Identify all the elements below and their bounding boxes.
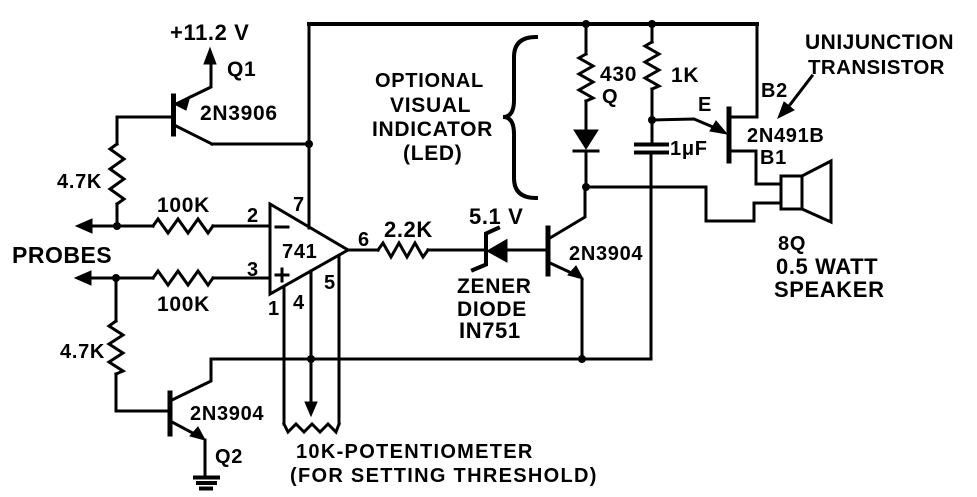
- svg-text:430: 430: [600, 63, 637, 86]
- svg-text:100K: 100K: [157, 293, 210, 316]
- svg-text:2N3904: 2N3904: [190, 403, 264, 425]
- svg-text:SPEAKER: SPEAKER: [774, 277, 885, 302]
- svg-text:PROBES: PROBES: [12, 242, 112, 268]
- svg-text:8Q: 8Q: [778, 233, 806, 255]
- svg-text:ZENER: ZENER: [457, 275, 532, 298]
- svg-text:100K: 100K: [157, 194, 210, 217]
- svg-text:2N3906: 2N3906: [200, 102, 278, 125]
- svg-text:3: 3: [247, 259, 259, 281]
- svg-text:2: 2: [247, 205, 259, 227]
- svg-text:UNIJUNCTION: UNIJUNCTION: [805, 31, 954, 54]
- svg-text:1: 1: [268, 298, 280, 320]
- svg-text:2N491B: 2N491B: [747, 125, 825, 147]
- svg-text:5.1 V: 5.1 V: [469, 204, 523, 229]
- svg-text:B1: B1: [760, 147, 787, 169]
- svg-text:7: 7: [293, 194, 305, 216]
- svg-text:4.7K: 4.7K: [60, 341, 105, 363]
- svg-text:TRANSISTOR: TRANSISTOR: [808, 56, 945, 79]
- svg-text:741: 741: [282, 241, 317, 263]
- svg-text:0.5 WATT: 0.5 WATT: [776, 254, 878, 279]
- svg-text:Q: Q: [602, 86, 618, 108]
- svg-text:4: 4: [293, 292, 305, 314]
- svg-text:IN751: IN751: [459, 318, 521, 343]
- svg-text:1K: 1K: [671, 64, 699, 87]
- svg-text:1μF: 1μF: [670, 138, 708, 160]
- svg-text:2N3904: 2N3904: [569, 243, 643, 265]
- svg-text:B2: B2: [761, 80, 788, 102]
- svg-text:2.2K: 2.2K: [384, 217, 433, 242]
- svg-text:Q1: Q1: [227, 58, 256, 81]
- svg-text:4.7K: 4.7K: [57, 171, 102, 193]
- svg-text:(FOR SETTING THRESHOLD): (FOR SETTING THRESHOLD): [290, 465, 598, 487]
- svg-text:6: 6: [358, 229, 370, 251]
- svg-text:E: E: [698, 94, 712, 116]
- svg-text:10K-POTENTIOMETER: 10K-POTENTIOMETER: [296, 441, 534, 463]
- svg-text:VISUAL: VISUAL: [390, 94, 471, 117]
- svg-text:5: 5: [324, 272, 336, 294]
- svg-text:Q2: Q2: [215, 446, 243, 468]
- svg-text:INDICATOR: INDICATOR: [372, 118, 493, 141]
- svg-text:+11.2 V: +11.2 V: [170, 20, 249, 45]
- svg-text:OPTIONAL: OPTIONAL: [375, 70, 484, 92]
- svg-text:(LED): (LED): [403, 142, 463, 165]
